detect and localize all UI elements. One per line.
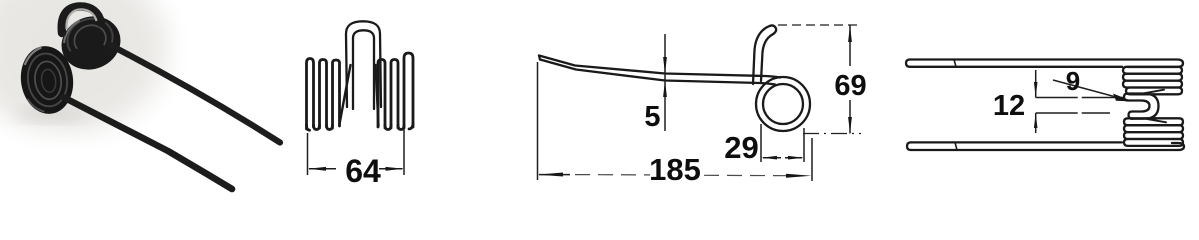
label 185: [649, 152, 701, 187]
svg-text:64: 64: [345, 153, 381, 189]
photo background blob: [0, 0, 176, 140]
front view: central loop inner: [353, 30, 374, 109]
label 64: [345, 153, 381, 189]
svg-text:185: 185: [649, 152, 701, 187]
svg-text:5: 5: [644, 101, 660, 133]
front view: central loop outer: [346, 21, 381, 107]
top view: loop to coil diagonals: [1144, 90, 1166, 123]
photo: lower tine: [63, 97, 232, 189]
side view: hook inner edge: [761, 34, 774, 81]
front view: diagonal left coil to loop: [340, 65, 351, 124]
photo: upper tine: [110, 45, 280, 143]
label 69: [834, 70, 866, 102]
dimension 5: [663, 34, 667, 131]
photo: top loop: [62, 6, 101, 33]
dimension 69: [778, 25, 861, 134]
svg-text:29: 29: [724, 130, 758, 165]
side view: coil outer circle: [756, 77, 810, 131]
side view: hook tip: [770, 25, 776, 33]
top view: lower tine tick: [955, 142, 957, 150]
label 5: [644, 101, 660, 133]
top view: lower tine outline: [907, 142, 1184, 150]
side view: tine tip end: [539, 56, 540, 60]
label 9: [1066, 66, 1080, 96]
svg-text:69: 69: [834, 70, 866, 102]
side view: tine lower line: [540, 60, 775, 85]
dimension 9 leader: [1053, 80, 1133, 102]
svg-text:9: 9: [1066, 66, 1080, 96]
photo: coil ground shadow: [16, 107, 88, 121]
side view: coil inner circle: [763, 84, 803, 124]
top view: upper tine tick: [954, 60, 956, 67]
dimension 12: [1034, 70, 1123, 133]
svg-text:12: 12: [993, 90, 1025, 122]
dimension 185: [538, 62, 813, 181]
label 29: [724, 130, 758, 165]
dimension 64: [308, 129, 405, 175]
dimension 29: [761, 124, 804, 162]
top view: central loop: [1124, 94, 1159, 119]
label 12: [993, 90, 1025, 122]
photo: rear coil: [53, 8, 128, 79]
side view: tine upper line: [539, 56, 780, 78]
front view: right coil turns: [378, 53, 413, 130]
top view: upper tine outline: [906, 60, 1183, 68]
front view: diagonal loop to right coil: [376, 65, 379, 126]
top view: upper coil turns: [1123, 67, 1182, 95]
top view: lower coil turns: [1124, 118, 1183, 146]
front view: left coil turns: [307, 59, 340, 131]
side view: hook outer edge: [753, 26, 770, 84]
photo: front coil: [17, 43, 78, 118]
